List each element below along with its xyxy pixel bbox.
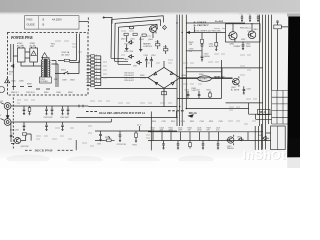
terminal strip grid right — [272, 91, 288, 125]
misc value labels (scan smudge texture) — [17, 28, 257, 146]
diode D901 — [11, 65, 14, 68]
hanging resistor R109 — [189, 141, 191, 143]
zener regulator D909 — [198, 76, 212, 81]
resistor R957 — [29, 106, 31, 108]
hanging capacitor C952 — [198, 91, 201, 98]
wire between jacks with arrow — [7, 109, 9, 115]
jack shield circle left edge — [0, 87, 5, 93]
capacitor cluster C972 — [119, 131, 122, 141]
resistor R913 — [156, 44, 160, 46]
resistor R923 — [142, 34, 146, 36]
nested wire rectangle 3 — [118, 24, 157, 64]
wire bridge output — [164, 61, 233, 95]
connector pin labels — [96, 55, 97, 83]
wire cluster verticals — [127, 32, 153, 49]
warning triangle (left edge) — [5, 78, 10, 82]
node cross mark — [103, 16, 105, 18]
capacitor C961 on input line — [45, 106, 48, 115]
resistor R914 — [164, 49, 168, 51]
signal arrow — [189, 115, 194, 118]
tick marks on input line — [79, 105, 83, 108]
capacitor C922 top-right — [249, 15, 251, 21]
tall box bottom-right — [271, 126, 286, 150]
scan bottom haze band — [0, 148, 300, 168]
wire long horizontal lower — [76, 111, 176, 117]
right bus verticals — [260, 15, 272, 150]
board outline POWER PWB (dashed) — [8, 33, 89, 96]
wire secondary to connector — [52, 61, 59, 88]
diode D922 — [129, 41, 134, 44]
nested wire bottom stubs — [111, 58, 131, 64]
wire into connector from board — [87, 56, 91, 86]
arrow left — [187, 32, 190, 34]
wire preamp bus — [148, 132, 271, 141]
jack J901 disc in L — [4, 103, 11, 110]
capacitor C958 lower — [23, 122, 26, 130]
transistor Q905 reg — [248, 31, 256, 39]
diode D902 — [129, 55, 135, 58]
black scan edge bar right — [287, 16, 300, 159]
capacitor C943 — [201, 43, 204, 49]
transformer label box T901 — [40, 77, 52, 83]
hanging resistor R951 — [209, 91, 211, 98]
wire bottom bus 1 — [95, 130, 177, 132]
transistor Q903 — [150, 26, 157, 33]
capacitor C957 after jack — [23, 106, 26, 115]
transformer primary box — [30, 48, 38, 62]
ground — [125, 49, 128, 51]
capacitor C911 above bridge — [145, 57, 148, 68]
black scan edge bar lower portion — [287, 138, 300, 157]
resistor R921 — [124, 33, 128, 35]
wire — [158, 40, 166, 54]
wire from J902 — [1, 119, 112, 122]
junction dots bus — [176, 22, 187, 118]
capacitor C965 lower line — [45, 122, 48, 130]
wire table to board edge — [79, 21, 88, 23]
hanging capacitor C111 — [217, 141, 220, 150]
power switch S901 — [62, 71, 71, 73]
DECK PWB boundary dashes — [25, 149, 32, 151]
capacitor cluster C971 — [99, 131, 102, 141]
motor circuit resistor R911 — [22, 133, 26, 135]
wire — [58, 60, 80, 62]
transistor Q902 — [233, 78, 240, 85]
capacitor C912 above bridge — [150, 57, 153, 68]
ground — [139, 50, 142, 52]
wire grid right-mid — [186, 103, 271, 119]
warning triangle (near transformer) — [42, 53, 48, 58]
wire — [25, 52, 30, 58]
board outline pre-amp left edge — [150, 112, 152, 151]
hanging capacitor C108 — [162, 141, 165, 150]
wire connector bottom to preamp — [95, 87, 177, 89]
nested wire rectangle 2 — [115, 20, 161, 62]
wire — [55, 60, 79, 73]
transistor Q912 deck motor — [228, 137, 234, 143]
capacitor C914 right — [242, 42, 245, 50]
wire — [13, 55, 17, 57]
paper background — [0, 0, 300, 168]
jack J902 disc in R — [4, 119, 11, 126]
DISC PRE-AMP board boundary dashes — [86, 111, 97, 113]
terminal connector top-right — [274, 25, 282, 29]
divider branch C942 — [215, 33, 217, 43]
nested wire rectangle 1 — [111, 16, 164, 59]
capacitor C963 on input line — [61, 106, 64, 115]
line filter LF901 — [18, 48, 26, 62]
rail wire 42V unreg — [189, 32, 226, 34]
resistor R952 under bridge — [162, 92, 167, 95]
motor circuit capacitor C917 — [10, 133, 13, 139]
wire — [75, 140, 77, 150]
wire motor cluster — [11, 122, 31, 144]
B+ regulator box — [226, 24, 261, 42]
gray top band (photo letterbox) — [0, 0, 300, 14]
hanging capacitor C951 — [187, 91, 190, 98]
wire stub to box — [248, 132, 271, 141]
bottom-right verticals — [255, 124, 261, 150]
wire L — [104, 18, 112, 24]
fuse rating table — [25, 16, 80, 29]
wire — [21, 62, 41, 66]
wire long horizontal upper — [88, 106, 177, 108]
transistor Q901 — [229, 32, 237, 40]
capacitor C964 on input line — [67, 106, 70, 115]
dashed board edge vertical — [87, 18, 89, 33]
resistor cluster R972 — [135, 131, 137, 133]
capacitor C941 — [243, 86, 246, 94]
bus vertical wires center — [177, 15, 186, 127]
wire feed verticals — [77, 34, 80, 63]
scan tint — [0, 14, 288, 159]
warning triangle (inside primary box) — [31, 51, 36, 56]
divider chain R943 — [201, 33, 203, 40]
wire bottom bus 2 — [95, 139, 104, 141]
diode D903 — [137, 61, 143, 64]
capacitor C921 top-right — [241, 15, 243, 21]
capacitor C962 on input line — [51, 106, 54, 115]
node 1 diamond — [163, 25, 167, 29]
wire AC input vertical — [11, 44, 14, 90]
hanging capacitor C109 — [177, 141, 180, 150]
wire from J901 — [1, 103, 89, 106]
bridge rectifier D905 diamond — [148, 67, 180, 88]
boundary dashes right — [168, 110, 184, 112]
connector pin stubs right — [95, 56, 101, 86]
capacitor C913 mid-right — [201, 49, 204, 62]
wire — [180, 68, 233, 79]
wire bus from connector — [101, 56, 148, 86]
diode D912 — [263, 136, 270, 140]
resistor R922 — [133, 33, 137, 35]
boundary dashes — [58, 149, 73, 151]
wire mid horizontals — [186, 51, 262, 72]
wire B+ feed — [186, 22, 245, 24]
label box WR-4 — [258, 109, 270, 114]
small parts row y87 — [12, 87, 50, 90]
svg-text:InShOt: InShOt — [243, 148, 286, 162]
preamp vertical drops — [153, 132, 219, 141]
oscillator coil L901 — [129, 26, 133, 29]
diode D913 — [239, 138, 244, 141]
hanging capacitor C110 — [202, 141, 205, 150]
capacitor C966 lower line — [61, 122, 64, 130]
box bottom edge upper-mid — [177, 60, 222, 98]
resistor R918 bottom middle — [107, 139, 112, 142]
power transformer T901 — [41, 57, 50, 77]
haze smudges — [6, 155, 214, 165]
dashed board edge deck — [12, 98, 14, 150]
fusible resistor R901 label — [17, 43, 24, 48]
connector CN901 pin boxes — [91, 55, 95, 87]
motor drive transistor Q911 — [15, 138, 21, 144]
fuse F901 — [64, 59, 69, 61]
fusible resistor R902 label — [30, 43, 37, 48]
bridge diode ticks — [154, 72, 174, 85]
capacitor C923 top-right — [257, 15, 259, 21]
